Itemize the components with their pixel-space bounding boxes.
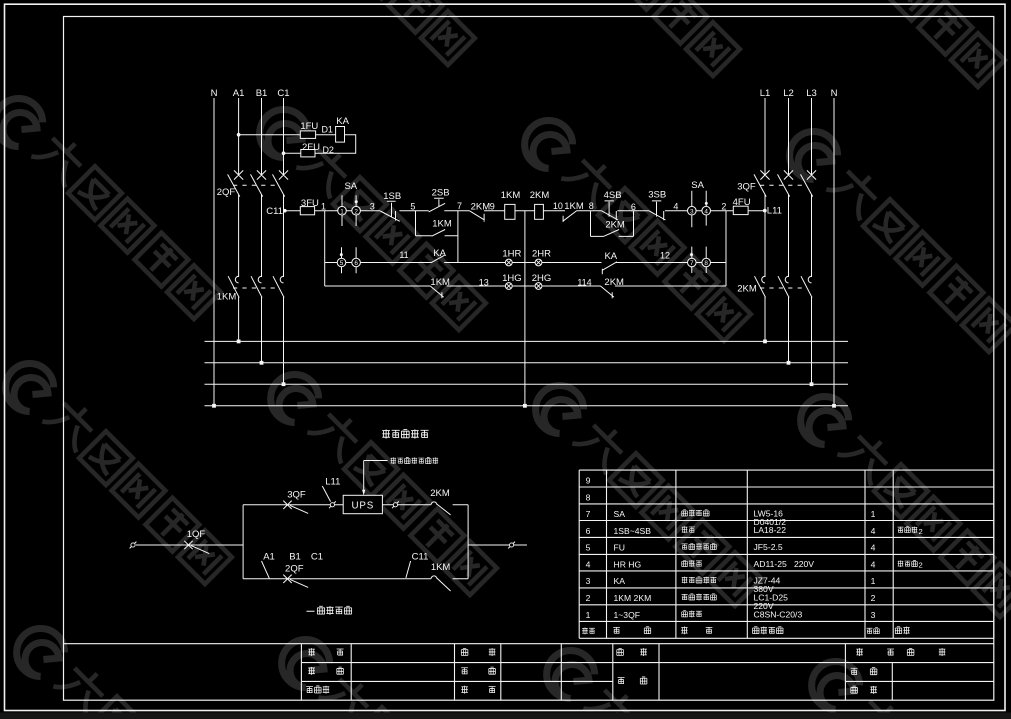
svg-text:12: 12 bbox=[660, 251, 670, 261]
svg-text:4SB: 4SB bbox=[604, 190, 622, 201]
svg-text:4: 4 bbox=[673, 201, 678, 211]
svg-text:L1: L1 bbox=[760, 88, 771, 99]
svg-text:3: 3 bbox=[586, 576, 591, 586]
svg-text:2KM: 2KM bbox=[430, 488, 450, 499]
svg-text:C11: C11 bbox=[412, 552, 429, 563]
svg-text:2QF: 2QF bbox=[217, 187, 236, 198]
svg-text:8: 8 bbox=[589, 201, 594, 211]
svg-text:2KM: 2KM bbox=[471, 201, 491, 212]
svg-text:N: N bbox=[831, 88, 838, 99]
svg-text:B1: B1 bbox=[289, 552, 301, 563]
svg-text:1HR: 1HR bbox=[502, 249, 521, 260]
svg-text:FU: FU bbox=[614, 543, 625, 553]
svg-text:9: 9 bbox=[490, 201, 495, 211]
svg-text:4: 4 bbox=[586, 560, 591, 570]
svg-text:3QF: 3QF bbox=[737, 182, 756, 193]
svg-text:SA: SA bbox=[344, 181, 357, 192]
svg-text:UPS: UPS bbox=[352, 500, 375, 511]
svg-text:1KM: 1KM bbox=[564, 201, 584, 212]
svg-text:1: 1 bbox=[586, 610, 591, 620]
svg-text:380V: 380V bbox=[754, 584, 774, 594]
svg-text:7: 7 bbox=[586, 509, 591, 519]
svg-text:1: 1 bbox=[321, 202, 326, 212]
svg-text:1SB~4SB: 1SB~4SB bbox=[614, 526, 652, 536]
svg-text:HR HG: HR HG bbox=[614, 560, 642, 570]
svg-text:1: 1 bbox=[340, 208, 344, 215]
svg-text:3: 3 bbox=[690, 208, 694, 215]
svg-text:10: 10 bbox=[553, 201, 563, 211]
svg-text:2KM: 2KM bbox=[604, 277, 624, 288]
svg-text:1KM: 1KM bbox=[430, 277, 450, 288]
svg-text:JF5-2.5: JF5-2.5 bbox=[754, 542, 783, 552]
svg-text:5: 5 bbox=[410, 202, 415, 212]
svg-text:2SB: 2SB bbox=[432, 188, 450, 199]
svg-text:4: 4 bbox=[704, 208, 708, 215]
svg-text:B1: B1 bbox=[256, 88, 268, 99]
svg-text:1KM: 1KM bbox=[501, 190, 521, 201]
svg-text:2QF: 2QF bbox=[285, 564, 304, 575]
svg-text:9: 9 bbox=[586, 475, 591, 485]
svg-text:AD11-25 220V: AD11-25 220V bbox=[754, 559, 815, 569]
svg-text:2KM: 2KM bbox=[530, 190, 550, 201]
svg-text:1HG: 1HG bbox=[502, 273, 522, 284]
svg-text:2: 2 bbox=[721, 201, 726, 211]
svg-text:SA: SA bbox=[614, 509, 626, 519]
svg-text:13: 13 bbox=[479, 278, 489, 288]
svg-text:1SB: 1SB bbox=[383, 191, 401, 202]
svg-text:11: 11 bbox=[399, 250, 408, 260]
svg-text:1KM: 1KM bbox=[432, 218, 452, 229]
svg-text:1KM: 1KM bbox=[217, 292, 237, 303]
svg-text:7: 7 bbox=[457, 201, 462, 211]
svg-text:4: 4 bbox=[871, 526, 876, 536]
svg-text:N: N bbox=[211, 88, 218, 99]
svg-text:D2: D2 bbox=[322, 145, 334, 155]
svg-text:5: 5 bbox=[340, 260, 344, 267]
svg-text:1: 1 bbox=[871, 576, 876, 586]
svg-text:C1: C1 bbox=[311, 552, 323, 563]
svg-text:4FU: 4FU bbox=[733, 197, 751, 208]
svg-text:220V: 220V bbox=[754, 601, 774, 611]
svg-text:4: 4 bbox=[871, 560, 876, 570]
svg-text:2: 2 bbox=[586, 593, 591, 603]
svg-text:L11: L11 bbox=[767, 206, 782, 217]
svg-text:2HG: 2HG bbox=[532, 273, 552, 284]
svg-text:L2: L2 bbox=[783, 88, 794, 99]
svg-text:1FU: 1FU bbox=[300, 121, 318, 132]
svg-text:D1: D1 bbox=[321, 125, 333, 135]
svg-text:6: 6 bbox=[631, 202, 636, 212]
svg-text:1: 1 bbox=[871, 509, 876, 519]
svg-text:KA: KA bbox=[614, 576, 626, 586]
svg-text:6: 6 bbox=[586, 526, 591, 536]
svg-text:2: 2 bbox=[871, 593, 876, 603]
svg-text:2: 2 bbox=[919, 561, 923, 570]
svg-text:2KM: 2KM bbox=[605, 220, 625, 231]
svg-text:C1: C1 bbox=[277, 88, 289, 99]
svg-text:2FU: 2FU bbox=[302, 142, 320, 153]
svg-text:SA: SA bbox=[691, 180, 704, 191]
svg-text:KA: KA bbox=[336, 116, 349, 127]
svg-text:7: 7 bbox=[690, 260, 694, 267]
svg-text:3QF: 3QF bbox=[287, 489, 306, 500]
svg-text:3SB: 3SB bbox=[648, 190, 666, 201]
svg-text:1QF: 1QF bbox=[187, 529, 206, 540]
svg-text:L3: L3 bbox=[806, 88, 817, 99]
svg-text:L11: L11 bbox=[325, 477, 340, 488]
svg-text:A1: A1 bbox=[263, 552, 275, 563]
svg-text:D0401/2: D0401/2 bbox=[754, 517, 787, 527]
svg-text:5: 5 bbox=[586, 543, 591, 553]
svg-text:3: 3 bbox=[370, 202, 375, 212]
svg-text:4: 4 bbox=[871, 543, 876, 553]
svg-text:KA: KA bbox=[433, 248, 446, 259]
svg-text:2KM: 2KM bbox=[737, 284, 757, 295]
svg-text:1KM 2KM: 1KM 2KM bbox=[614, 593, 652, 603]
svg-text:3FU: 3FU bbox=[301, 198, 319, 209]
svg-text:2HR: 2HR bbox=[532, 249, 551, 260]
svg-text:8: 8 bbox=[704, 260, 708, 267]
svg-text:8: 8 bbox=[586, 492, 591, 502]
svg-text:2: 2 bbox=[354, 208, 358, 215]
svg-text:C11: C11 bbox=[266, 206, 283, 217]
svg-text:1~3QF: 1~3QF bbox=[614, 610, 641, 620]
svg-text:A1: A1 bbox=[233, 88, 245, 99]
svg-text:2: 2 bbox=[919, 527, 923, 536]
svg-text:1KM: 1KM bbox=[431, 562, 451, 573]
svg-text:3: 3 bbox=[871, 610, 876, 620]
svg-text:114: 114 bbox=[577, 278, 591, 288]
svg-text:6: 6 bbox=[354, 260, 358, 267]
svg-text:KA: KA bbox=[604, 251, 617, 262]
